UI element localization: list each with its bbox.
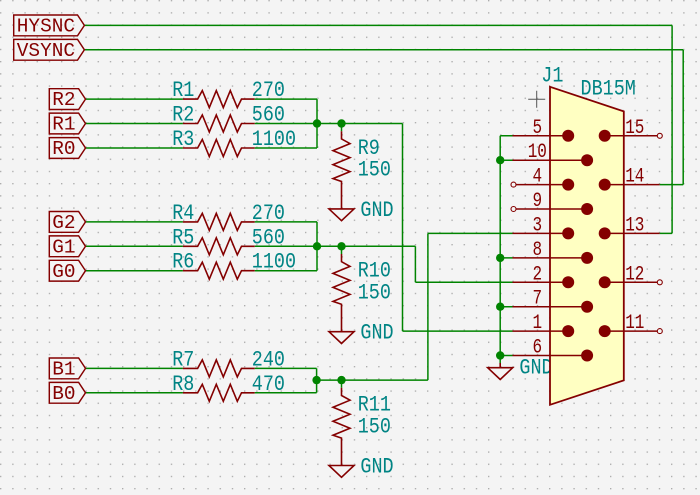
svg-text:3: 3 xyxy=(532,215,542,237)
svg-text:GND: GND xyxy=(360,455,393,480)
svg-text:1100: 1100 xyxy=(252,250,296,275)
svg-text:5: 5 xyxy=(532,117,542,139)
svg-text:6: 6 xyxy=(532,337,542,359)
svg-text:10: 10 xyxy=(528,142,547,164)
svg-text:15: 15 xyxy=(625,117,644,139)
svg-text:14: 14 xyxy=(625,166,644,188)
svg-text:8: 8 xyxy=(532,239,542,261)
svg-text:B1: B1 xyxy=(52,359,75,381)
svg-text:470: 470 xyxy=(252,372,285,397)
svg-text:11: 11 xyxy=(625,313,644,335)
svg-text:150: 150 xyxy=(358,281,391,306)
svg-text:R0: R0 xyxy=(52,138,75,160)
svg-text:560: 560 xyxy=(252,226,285,251)
svg-text:GND: GND xyxy=(519,356,552,381)
svg-text:150: 150 xyxy=(358,158,391,183)
svg-text:R2: R2 xyxy=(52,89,75,111)
svg-text:G1: G1 xyxy=(52,236,75,258)
svg-text:240: 240 xyxy=(252,348,285,373)
svg-text:GND: GND xyxy=(360,198,393,223)
svg-text:VSYNC: VSYNC xyxy=(17,40,75,62)
svg-text:150: 150 xyxy=(358,415,391,440)
svg-text:7: 7 xyxy=(532,288,542,310)
svg-text:G2: G2 xyxy=(52,212,75,234)
svg-text:560: 560 xyxy=(252,103,285,128)
svg-text:R5: R5 xyxy=(172,226,194,251)
svg-text:G0: G0 xyxy=(52,261,75,283)
svg-text:R7: R7 xyxy=(172,348,194,373)
svg-text:1: 1 xyxy=(532,313,542,335)
svg-text:R1: R1 xyxy=(172,79,194,104)
svg-text:R2: R2 xyxy=(172,103,194,128)
svg-text:GND: GND xyxy=(360,321,393,346)
svg-text:R1: R1 xyxy=(52,114,75,136)
svg-text:270: 270 xyxy=(252,79,285,104)
svg-text:R6: R6 xyxy=(172,250,194,275)
svg-text:13: 13 xyxy=(625,215,644,237)
svg-text:1100: 1100 xyxy=(252,128,296,153)
svg-text:HYSNC: HYSNC xyxy=(17,16,75,38)
svg-text:12: 12 xyxy=(625,264,644,286)
svg-text:J1: J1 xyxy=(541,64,563,89)
svg-text:270: 270 xyxy=(252,201,285,226)
svg-text:9: 9 xyxy=(532,191,542,213)
svg-text:R8: R8 xyxy=(172,372,194,397)
svg-text:DB15M: DB15M xyxy=(581,77,636,102)
svg-text:B0: B0 xyxy=(52,383,75,405)
svg-text:R4: R4 xyxy=(172,201,194,226)
svg-text:R3: R3 xyxy=(172,128,194,153)
svg-text:2: 2 xyxy=(532,264,542,286)
svg-text:4: 4 xyxy=(532,166,542,188)
